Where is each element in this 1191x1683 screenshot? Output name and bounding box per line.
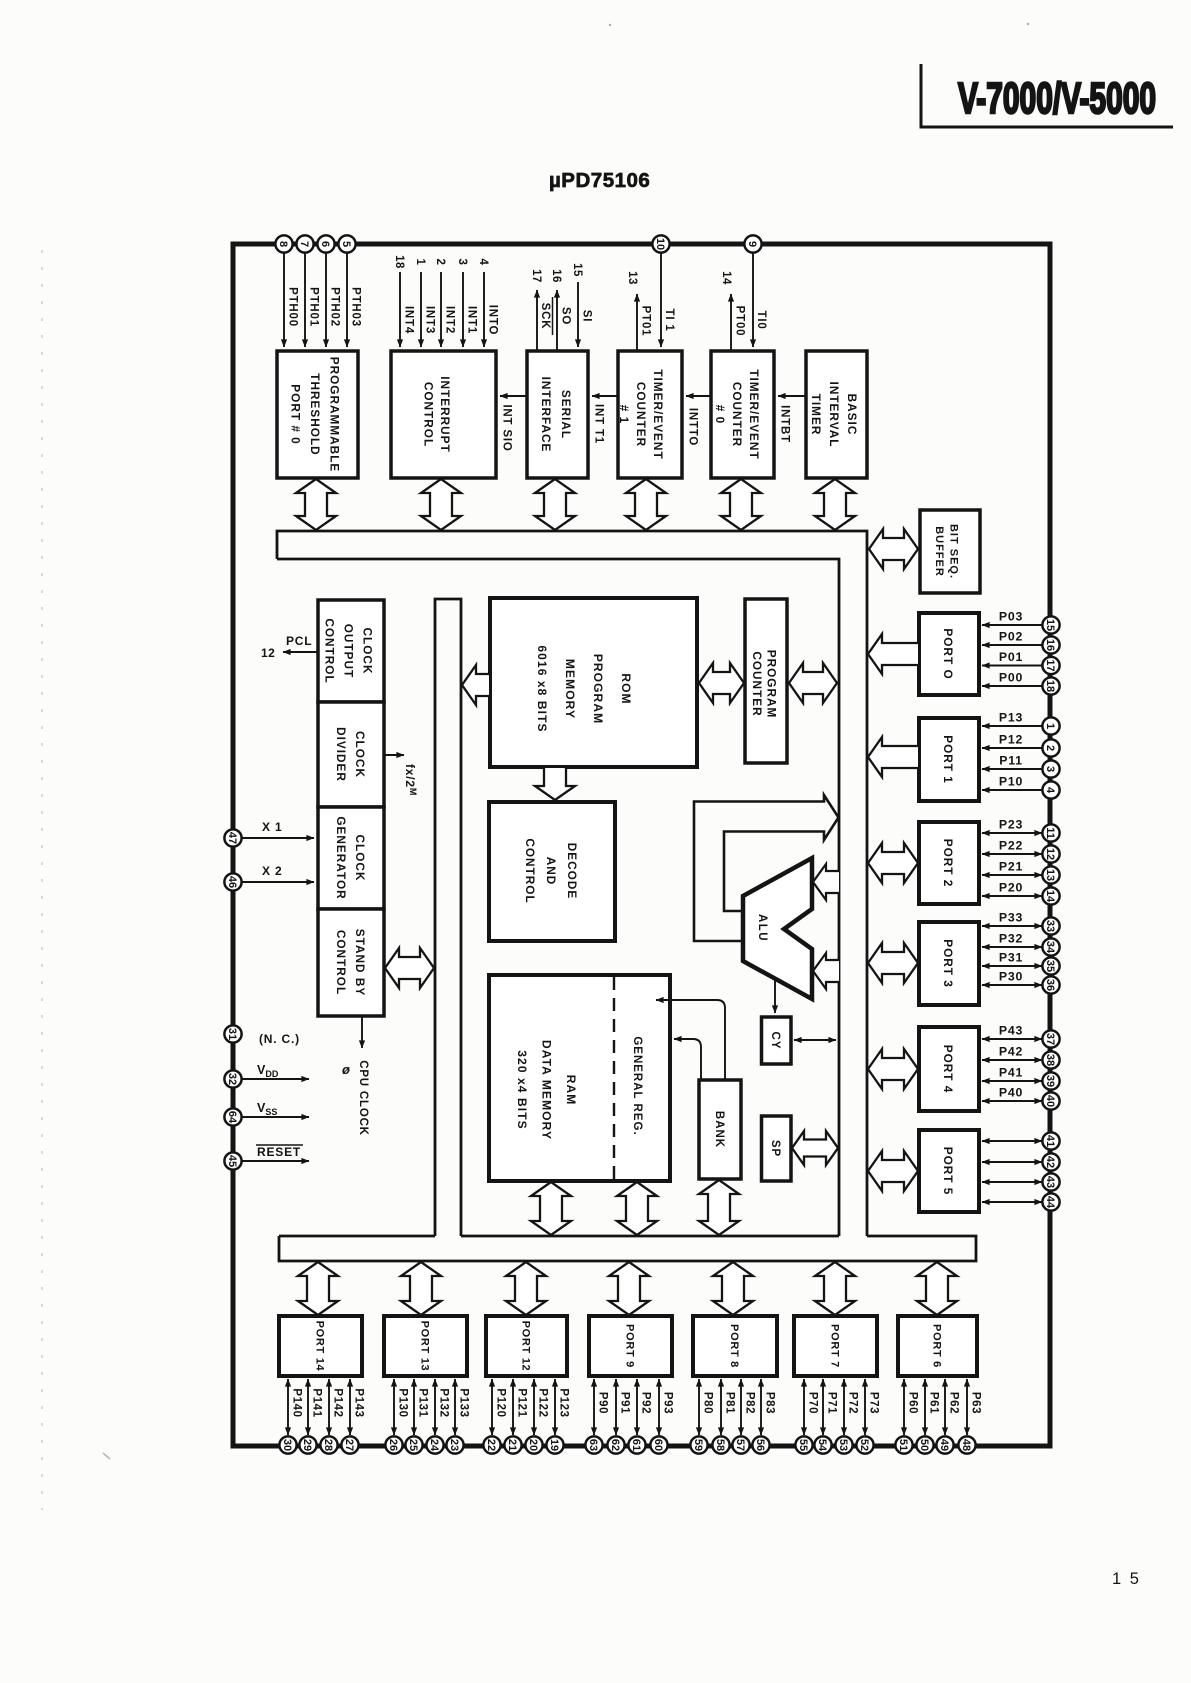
svg-text:18: 18	[1044, 680, 1056, 692]
block port 12	[486, 1316, 567, 1376]
svg-text:P90: P90	[597, 1392, 609, 1414]
svg-text:PCL: PCL	[286, 634, 312, 648]
svg-text:PORT 1: PORT 1	[941, 735, 955, 784]
bus arrow port 8	[713, 1262, 753, 1315]
svg-text:PORT 8: PORT 8	[728, 1324, 740, 1368]
block port 13	[384, 1316, 467, 1376]
svg-text:4: 4	[1044, 787, 1056, 794]
bus arrow SP to main bus	[792, 1131, 838, 1165]
svg-text:22: 22	[485, 1439, 497, 1451]
pin 2 P12	[982, 733, 1060, 757]
svg-text:PORT 9: PORT 9	[624, 1324, 636, 1368]
svg-text:27: 27	[343, 1439, 355, 1451]
pin 44 port 5 bit	[982, 1193, 1060, 1210]
svg-text:2: 2	[1044, 745, 1056, 751]
svg-text:P83: P83	[764, 1392, 776, 1414]
pin 14 PT00 output	[720, 271, 746, 351]
bus arrow port 13	[401, 1262, 441, 1315]
svg-text:P130: P130	[397, 1388, 409, 1417]
bus arrow port 7	[815, 1262, 855, 1315]
svg-text:8: 8	[277, 241, 289, 247]
svg-text:P12: P12	[999, 733, 1023, 747]
pin 43 port 5 bit	[982, 1173, 1060, 1190]
pin 31 N.C.	[224, 1025, 300, 1046]
svg-text:P01: P01	[999, 650, 1023, 664]
svg-text:µPD75106: µPD75106	[549, 169, 650, 192]
wire INTT0 timer0->timer1	[686, 396, 711, 446]
pin 57 P82	[732, 1379, 755, 1454]
bottom horizontal bus	[279, 1236, 976, 1261]
bus arrow port 6	[917, 1262, 957, 1315]
svg-text:51: 51	[897, 1439, 909, 1451]
svg-text:64: 64	[226, 1111, 238, 1124]
bus arrow basic interval timer	[815, 479, 855, 530]
wire CPU CLOCK phi	[342, 1016, 369, 1136]
pin 35 P31	[982, 951, 1060, 975]
svg-text:INTTO: INTTO	[687, 408, 699, 446]
pin 17 P01	[982, 650, 1060, 674]
register SP	[762, 1116, 792, 1181]
svg-text:P11: P11	[999, 754, 1023, 768]
pin 55 P70	[795, 1379, 818, 1454]
svg-text:15: 15	[1044, 619, 1056, 631]
svg-text:PORT 3: PORT 3	[941, 939, 955, 988]
pin 25 P131	[405, 1379, 428, 1454]
svg-text:INT3: INT3	[424, 306, 436, 334]
pin 52 P73	[856, 1379, 879, 1454]
register CY	[762, 1017, 792, 1064]
bus arrow port 9	[609, 1262, 649, 1315]
pin 20 P122	[525, 1379, 548, 1454]
svg-text:12: 12	[1044, 848, 1056, 860]
pin 26 P130	[385, 1379, 408, 1454]
svg-text:PORT 6: PORT 6	[931, 1324, 943, 1368]
pin 46 X2	[224, 864, 314, 891]
pin 13 PT01 output	[626, 271, 652, 351]
block port 7	[794, 1316, 877, 1376]
svg-text:P33: P33	[999, 911, 1023, 925]
pin 24 P132	[426, 1379, 449, 1454]
pin 21 P121	[504, 1379, 527, 1454]
pin 58 P81	[712, 1379, 735, 1454]
pin 23 P133	[446, 1379, 469, 1454]
pin 16 P02	[982, 630, 1060, 654]
bus arrow program counter to main bus	[789, 663, 837, 703]
svg-text:PORT 7: PORT 7	[829, 1324, 841, 1368]
svg-text:ALU: ALU	[756, 914, 768, 942]
pin 28 P142	[320, 1379, 343, 1454]
svg-text:19: 19	[548, 1439, 560, 1451]
block clock output control	[318, 600, 384, 702]
pin 53 P72	[835, 1379, 858, 1454]
main bus (top horizontal + right vertical)	[277, 531, 867, 1236]
svg-text:P141: P141	[311, 1388, 323, 1417]
svg-text:P60: P60	[907, 1392, 919, 1414]
pin 40 P40	[982, 1086, 1060, 1110]
block port 14	[279, 1316, 362, 1376]
svg-text:INT2: INT2	[444, 306, 456, 334]
svg-text:PTH02: PTH02	[329, 287, 341, 327]
block programmable threshold port #0	[277, 351, 358, 478]
pin 8 PTH00	[275, 235, 298, 347]
svg-text:35: 35	[1044, 960, 1056, 972]
bus arrow port 2	[868, 843, 918, 883]
svg-text:24: 24	[428, 1439, 440, 1452]
bus arrow timer1	[626, 479, 666, 530]
svg-text:PORT 12: PORT 12	[520, 1321, 532, 1372]
svg-text:P23: P23	[999, 818, 1023, 832]
block port 6	[898, 1316, 977, 1376]
wire BANK to general reg lower	[674, 1039, 701, 1081]
svg-text:44: 44	[1044, 1196, 1056, 1209]
svg-text:10: 10	[654, 238, 666, 250]
svg-text:14: 14	[1044, 890, 1056, 903]
svg-text:32: 32	[226, 1073, 238, 1085]
svg-text:14: 14	[720, 271, 732, 285]
pin 63 P90	[585, 1379, 608, 1454]
bus arrow timer0	[721, 479, 761, 530]
internal narrow vertical bus	[435, 599, 461, 1236]
pin 18 INT4	[393, 255, 415, 347]
svg-text:P00: P00	[999, 671, 1023, 685]
svg-text:P80: P80	[702, 1392, 714, 1414]
svg-text:TI 1: TI 1	[663, 308, 675, 331]
op-unit ALU	[743, 858, 812, 999]
svg-text:INT T1: INT T1	[593, 404, 605, 444]
pin 15 SI (input)	[571, 263, 593, 347]
svg-text:3: 3	[456, 259, 468, 266]
svg-text:P22: P22	[999, 839, 1023, 853]
register BANK	[699, 1080, 741, 1179]
svg-text:CPU CLOCK: CPU CLOCK	[357, 1060, 369, 1136]
svg-text:P71: P71	[826, 1392, 838, 1414]
pin 61 P92	[628, 1379, 651, 1454]
svg-text:P13: P13	[999, 711, 1023, 725]
block port 2	[919, 822, 979, 904]
bus arrow ROM / program counter	[699, 663, 744, 703]
svg-text:36: 36	[1044, 979, 1056, 991]
svg-text:18: 18	[393, 255, 405, 269]
pin 48 P63	[958, 1379, 981, 1454]
bus arrow BANK	[699, 1180, 739, 1235]
svg-text:PT00: PT00	[734, 306, 746, 337]
pin 59 P80	[690, 1379, 713, 1454]
pin 10 TI1 input	[652, 235, 675, 347]
pin 27 P143	[341, 1379, 364, 1454]
svg-text:7: 7	[298, 241, 310, 247]
bus arrow bit seq buffer	[869, 529, 918, 569]
svg-text:20: 20	[527, 1439, 539, 1451]
pin 2 INT2	[434, 259, 456, 347]
svg-text:1: 1	[414, 259, 426, 266]
svg-text:X 1: X 1	[262, 820, 282, 834]
pin 1 P13	[982, 711, 1060, 735]
bus arrow port 4	[868, 1049, 918, 1089]
block port o	[919, 613, 979, 695]
block port 5	[919, 1130, 979, 1212]
svg-text:P120: P120	[495, 1388, 507, 1417]
pin 29 P141	[299, 1379, 322, 1454]
svg-text:P63: P63	[970, 1392, 982, 1414]
svg-text:P142: P142	[332, 1388, 344, 1417]
wire fx/2^M from clock divider	[384, 755, 418, 796]
pin 42 port 5 bit	[982, 1153, 1060, 1170]
svg-text:52: 52	[858, 1439, 870, 1451]
svg-text:16: 16	[1044, 639, 1056, 651]
svg-text:31: 31	[226, 1028, 238, 1040]
wire ALU to CY	[774, 980, 776, 1013]
svg-text:5: 5	[340, 241, 352, 247]
pin 16 SO (output arrow up)	[550, 269, 572, 351]
svg-text:P121: P121	[516, 1388, 528, 1417]
svg-text:PORT O: PORT O	[941, 628, 955, 679]
svg-text:43: 43	[1044, 1176, 1056, 1188]
pin 15 P03	[982, 610, 1060, 634]
svg-text:21: 21	[506, 1439, 518, 1451]
svg-text:63: 63	[587, 1439, 599, 1451]
svg-text:4: 4	[477, 259, 489, 266]
svg-text:P02: P02	[999, 630, 1023, 644]
svg-text:PT01: PT01	[640, 306, 652, 337]
pin 47 X1	[224, 820, 314, 847]
svg-text:P72: P72	[847, 1392, 859, 1414]
svg-text:P40: P40	[999, 1086, 1023, 1100]
bus arrow port o	[868, 634, 918, 674]
svg-text:P92: P92	[640, 1392, 652, 1414]
svg-text:45: 45	[226, 1155, 238, 1167]
svg-text:PROGRAMCOUNTER: PROGRAMCOUNTER	[750, 650, 779, 719]
block serial interface	[527, 351, 588, 478]
pin 13 P21	[982, 860, 1060, 884]
pin 54 P71	[814, 1379, 837, 1454]
svg-text:PORT 2: PORT 2	[941, 839, 955, 888]
pin 12 P22	[982, 839, 1060, 863]
pin 19 P123	[546, 1379, 569, 1454]
svg-text:26: 26	[387, 1439, 399, 1451]
svg-text:P82: P82	[744, 1392, 756, 1414]
svg-text:P133: P133	[458, 1388, 470, 1417]
svg-text:SI: SI	[581, 310, 593, 322]
block interrupt control	[391, 351, 496, 478]
svg-text:61: 61	[630, 1439, 642, 1451]
svg-text:60: 60	[652, 1439, 664, 1451]
svg-text:54: 54	[816, 1439, 828, 1452]
wire INTBT bit->timer0	[778, 396, 806, 443]
svg-text:41: 41	[1044, 1135, 1056, 1147]
svg-text:1 5: 1 5	[1112, 1570, 1141, 1588]
svg-text:13: 13	[626, 271, 638, 285]
pin 4 INTO	[477, 259, 499, 347]
pin 41 port 5 bit	[982, 1132, 1060, 1149]
svg-text:SO: SO	[560, 307, 572, 325]
pin 60 P93	[650, 1379, 673, 1454]
svg-text:30: 30	[281, 1439, 293, 1451]
pin 11 P23	[982, 818, 1060, 842]
svg-text:48: 48	[960, 1439, 972, 1451]
svg-text:(N. C.): (N. C.)	[259, 1032, 300, 1046]
bus arrow into ALU upper input	[813, 864, 839, 900]
svg-text:33: 33	[1044, 920, 1056, 932]
model label box V-7000/V-5000	[921, 64, 1173, 127]
svg-text:CLOCKOUTPUTCONTROL: CLOCKOUTPUTCONTROL	[322, 618, 374, 683]
pin 1 INT3	[414, 259, 436, 347]
bus arrow stand by control	[385, 948, 434, 988]
svg-text:15: 15	[571, 263, 583, 277]
svg-text:50: 50	[918, 1439, 930, 1451]
svg-text:PTH00: PTH00	[287, 287, 299, 327]
svg-text:42: 42	[1044, 1156, 1056, 1168]
svg-text:PORT 4: PORT 4	[941, 1045, 955, 1094]
bus arrow interrupt control	[421, 479, 461, 530]
pin 45 RESET (overline)	[224, 1145, 309, 1170]
block port 3	[919, 922, 979, 1005]
block timer/event counter #1	[617, 351, 682, 478]
svg-text:PORT 14: PORT 14	[314, 1321, 326, 1372]
pin 39 P41	[982, 1066, 1060, 1090]
svg-text:53: 53	[837, 1439, 849, 1451]
svg-text:PORT 5: PORT 5	[941, 1147, 955, 1196]
block timer/event counter #0	[711, 351, 774, 478]
svg-text:INTO: INTO	[487, 305, 499, 335]
svg-text:P32: P32	[999, 932, 1023, 946]
svg-text:38: 38	[1044, 1054, 1056, 1066]
pin 12 PCL output	[261, 634, 318, 660]
svg-text:29: 29	[301, 1439, 313, 1451]
pin 62 P91	[607, 1379, 630, 1454]
svg-text:P31: P31	[999, 951, 1023, 965]
svg-text:2: 2	[434, 259, 446, 266]
svg-text:59: 59	[692, 1439, 704, 1451]
svg-text:P43: P43	[999, 1024, 1023, 1038]
pin 9 TI0 input	[744, 235, 767, 347]
block stand by control	[318, 909, 384, 1016]
svg-text:16: 16	[550, 269, 562, 283]
svg-text:P30: P30	[999, 970, 1023, 984]
svg-text:P03: P03	[999, 610, 1023, 624]
svg-text:11: 11	[1044, 827, 1056, 839]
chip outline	[233, 244, 1050, 1446]
pin 30 P140	[279, 1379, 302, 1454]
svg-text:56: 56	[754, 1439, 766, 1451]
block port 8	[693, 1316, 777, 1376]
svg-text:INTBT: INTBT	[779, 405, 791, 443]
pin 3 P11	[982, 754, 1060, 778]
svg-text:P140: P140	[291, 1388, 303, 1417]
svg-text:SP: SP	[769, 1140, 781, 1157]
svg-text:P20: P20	[999, 881, 1023, 895]
svg-text:57: 57	[734, 1439, 746, 1451]
svg-text:X 2: X 2	[262, 864, 282, 878]
block bit seq buffer	[920, 510, 980, 593]
svg-text:BANK: BANK	[713, 1111, 725, 1148]
svg-text:28: 28	[322, 1439, 334, 1451]
svg-text:P132: P132	[438, 1388, 450, 1417]
pin 14 P20	[982, 881, 1060, 905]
svg-text:P42: P42	[999, 1045, 1023, 1059]
svg-text:ø: ø	[342, 1062, 350, 1077]
block program counter	[745, 599, 787, 763]
svg-text:40: 40	[1044, 1095, 1056, 1107]
svg-text:P131: P131	[417, 1388, 429, 1417]
svg-text:P122: P122	[537, 1388, 549, 1417]
wire INT SIO serial->interrupt	[500, 396, 527, 452]
svg-text:PTH03: PTH03	[350, 287, 362, 327]
svg-text:9: 9	[746, 241, 758, 247]
pin 3 INT1	[456, 259, 478, 347]
bus arrow RAM left	[531, 1182, 571, 1235]
bus arrow port 14	[298, 1262, 338, 1315]
svg-text:3: 3	[1044, 766, 1056, 772]
arrow ROM to decode	[535, 768, 575, 800]
svg-text:6: 6	[319, 241, 331, 247]
wire BANK to general reg upper	[656, 1000, 725, 1081]
svg-text:RESET: RESET	[257, 1145, 301, 1159]
svg-text:49: 49	[938, 1439, 950, 1451]
svg-text:P41: P41	[999, 1066, 1023, 1080]
pin 5 PTH03	[338, 235, 361, 347]
bus arrow ROM to internal bus	[462, 665, 489, 705]
block decode and control	[489, 802, 615, 941]
svg-text:GENERAL REG.: GENERAL REG.	[631, 1036, 643, 1135]
svg-text:17: 17	[1044, 659, 1056, 671]
svg-text:P21: P21	[999, 860, 1023, 874]
svg-text:37: 37	[1044, 1033, 1056, 1045]
svg-text:P73: P73	[868, 1392, 880, 1414]
block clock divider	[318, 702, 384, 807]
svg-text:39: 39	[1044, 1075, 1056, 1087]
bus arrow into ALU lower input	[813, 953, 839, 989]
block port 9	[589, 1316, 672, 1376]
block port 4	[919, 1027, 979, 1111]
svg-text:PTH01: PTH01	[308, 287, 320, 327]
svg-text:TI0: TI0	[755, 310, 767, 329]
block port 1	[919, 718, 979, 801]
svg-text:P81: P81	[724, 1392, 736, 1414]
bus arrow port 1	[868, 737, 918, 777]
pin 36 P30	[982, 970, 1060, 994]
pin 37 P43	[982, 1024, 1060, 1048]
svg-text:P143: P143	[353, 1388, 365, 1417]
wire INT T1 timer1->serial	[592, 396, 618, 444]
svg-text:P70: P70	[807, 1392, 819, 1414]
block clock generator	[318, 807, 384, 909]
svg-text:P93: P93	[662, 1392, 674, 1414]
svg-text:P91: P91	[619, 1392, 631, 1414]
svg-text:12: 12	[261, 646, 275, 660]
svg-text:SCK: SCK	[539, 303, 551, 330]
pin 49 P62	[936, 1379, 959, 1454]
wire ALU output loop to main bus	[694, 795, 839, 941]
bus arrow port 5	[868, 1151, 918, 1191]
pin 4 P10	[982, 775, 1060, 799]
pin 38 P42	[982, 1045, 1060, 1069]
svg-text:P123: P123	[558, 1388, 570, 1417]
pin 17 SCK (output arrow up, overline)	[530, 269, 553, 351]
svg-text:25: 25	[407, 1439, 419, 1451]
scan artifact margin dots	[42, 23, 1029, 1510]
block ROM program memory	[490, 598, 697, 767]
pin 22 P120	[483, 1379, 506, 1454]
svg-text:46: 46	[226, 876, 238, 888]
bus arrow port 12	[506, 1262, 546, 1315]
block RAM data memory / general reg	[489, 975, 670, 1181]
svg-text:PORT 13: PORT 13	[419, 1321, 431, 1372]
wire CY to main bus	[794, 1039, 836, 1041]
pin 34 P32	[982, 932, 1060, 956]
pin 56 P83	[752, 1379, 775, 1454]
pin 33 P33	[982, 911, 1060, 935]
svg-text:INT1: INT1	[466, 306, 478, 334]
